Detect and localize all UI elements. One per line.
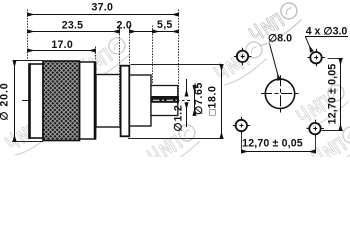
front view: mounting hole top-right (308, 49, 326, 66)
cap thick left edge (28, 63, 30, 139)
watermark stamp S5 (213, 39, 270, 88)
watermark stamp S2 (76, 35, 133, 84)
svg-text:∅7.65: ∅7.65 (193, 82, 205, 115)
dimension D20.0 (left, vertical) (0, 61, 44, 142)
dimension 17.0 (28, 39, 96, 51)
dimension 2.0 (outside arrows) (113, 20, 153, 32)
watermark stamp S1 (248, 0, 305, 49)
watermark stamp S6 (295, 82, 350, 131)
watermark stamp S4 (146, 122, 203, 171)
rear insulator (151, 86, 178, 116)
flange plate side view (121, 66, 130, 137)
svg-text:∅8.0: ∅8.0 (268, 33, 292, 45)
dimension square 18.0 (flange, vertical) (128, 65, 224, 139)
watermark stamp S3 (4, 109, 61, 158)
centerline side view (22, 100, 190, 102)
svg-text:12,70 ± 0,05: 12,70 ± 0,05 (242, 137, 303, 149)
extension line nut right (x=95.2) (95, 47, 97, 61)
svg-text:17.0: 17.0 (51, 39, 73, 51)
extension line flange right (x=129.6) (129, 26, 131, 66)
body midsection between nut and flange (96, 75, 121, 128)
svg-text:4 x ∅3.0: 4 x ∅3.0 (306, 26, 348, 38)
label D8.0 with leader (268, 33, 292, 81)
collar behind flange (129, 75, 151, 126)
svg-text:∅ 20.0: ∅ 20.0 (0, 82, 11, 120)
label 4 x D3.0 with leader (305, 26, 348, 52)
dimension 12.70 +-0.05 (right, vertical) (322, 59, 344, 131)
dimension 12.70 +-0.05 (bottom) (242, 134, 316, 154)
extension line right (x=178.6) (178, 10, 180, 96)
center pin (152, 96, 179, 104)
nut rear ring (80, 62, 96, 139)
svg-text:2.0: 2.0 (117, 20, 132, 32)
svg-text:5,5: 5,5 (157, 19, 172, 31)
svg-text:23.5: 23.5 (62, 20, 84, 32)
svg-text:37.0: 37.0 (91, 2, 113, 14)
coupling nut front cap (29, 64, 43, 138)
watermark stamp S7 (310, 124, 350, 173)
front view: mounting hole bottom-right (307, 120, 325, 137)
svg-text:12,70 ± 0,05: 12,70 ± 0,05 (326, 64, 338, 125)
extension line flange left (x=119.8) (119, 26, 121, 129)
dimension 5.5 (153, 19, 179, 31)
dimension D7.65 (insulator, vertical) (193, 82, 205, 115)
dimension 23.5 (28, 20, 120, 32)
svg-text:□18.0: □18.0 (206, 85, 218, 115)
nut rear ring thick right edge (94, 62, 97, 139)
front view: center circle D8 (261, 75, 300, 112)
front view: mounting hole bottom-left (233, 117, 251, 134)
svg-text:∅1.2: ∅1.2 (172, 104, 184, 131)
knurl section (43, 61, 80, 141)
dimension 37.0 (28, 2, 179, 15)
dimension D1.2 (pin, vertical) (172, 79, 186, 132)
extension line left (x=27.5) (27, 10, 29, 61)
extension line pin start (x=155) (152, 26, 154, 85)
front view: mounting hole top-left (234, 48, 252, 65)
